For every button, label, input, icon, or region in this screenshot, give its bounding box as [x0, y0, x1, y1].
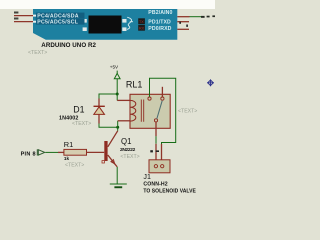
- relay pole contact: [154, 119, 157, 122]
- svg-text:<TEXT>: <TEXT>: [65, 162, 84, 168]
- svg-text:<TEXT>: <TEXT>: [178, 109, 197, 115]
- transistor Q1 base bar: [104, 141, 107, 161]
- wire B down to collector: [117, 127, 119, 131]
- svg-text:1k: 1k: [64, 156, 70, 161]
- diode D1 cathode bar: [94, 105, 105, 107]
- origin marker: [207, 79, 214, 86]
- arduino U1 board body: [33, 9, 177, 40]
- svg-text:<TEXT>: <TEXT>: [28, 50, 47, 56]
- junction A: [116, 93, 119, 96]
- relay contact NO: [161, 97, 164, 100]
- svg-text:ARDUINO UNO R2: ARDUINO UNO R2: [41, 42, 96, 49]
- pin mark SDA: [33, 15, 36, 17]
- white top band (outside sheet): [0, 0, 215, 9]
- svg-text:PC5/ADC5/SCL: PC5/ADC5/SCL: [37, 20, 79, 26]
- svg-text:PD0/RXD: PD0/RXD: [148, 26, 171, 32]
- relay RL1 body: [130, 94, 170, 128]
- net label marks: [201, 16, 205, 18]
- svg-text:PIN 8: PIN 8: [21, 152, 36, 158]
- wire pin28 SCL: [14, 21, 33, 23]
- connector J1 body: [149, 160, 170, 173]
- svg-text:J1: J1: [143, 173, 151, 181]
- svg-text:TX: TX: [139, 20, 144, 24]
- relay blade: [157, 101, 162, 119]
- pin number 0: [186, 25, 188, 27]
- pin stub J1 pin2: [161, 144, 163, 165]
- svg-text:PD1/TXD: PD1/TXD: [148, 19, 171, 25]
- svg-text:2N2222: 2N2222: [120, 147, 136, 153]
- arduino IC chip: [89, 16, 122, 34]
- diode D1 triangle: [94, 107, 105, 115]
- arduino silk squiggle: [127, 17, 132, 29]
- emitter arrow: [111, 160, 115, 164]
- diode D1 pin bottom: [98, 114, 100, 123]
- pad 1: [154, 165, 157, 168]
- transistor Q1 collector: [108, 131, 118, 147]
- pin mark SCL: [33, 21, 36, 23]
- svg-text:PB2/AIN0: PB2/AIN0: [148, 10, 172, 16]
- power symbol +5V: [116, 71, 118, 74]
- origin mark Q1: [102, 161, 104, 163]
- RX indicator: [138, 25, 145, 31]
- pin stub J1 pin1: [155, 144, 157, 165]
- label A4: [14, 12, 18, 14]
- svg-text:TO SOLENOID VALVE: TO SOLENOID VALVE: [143, 189, 196, 195]
- arduino chip pads: [83, 19, 127, 31]
- wire pin27 SDA: [14, 15, 33, 17]
- pin stub RXD: [177, 28, 189, 30]
- svg-text:Q1: Q1: [121, 137, 131, 146]
- wire emitter to ground: [116, 167, 118, 184]
- transistor Q1 emitter: [108, 155, 117, 167]
- svg-text:D1: D1: [73, 104, 84, 114]
- wire pole to J1 pin1: [155, 136, 157, 144]
- terminal PIN8: [36, 149, 38, 155]
- TX indicator: [138, 18, 145, 24]
- pin stub TXD: [177, 21, 189, 23]
- sheet background: [0, 0, 215, 215]
- relay coil arcs: [130, 100, 136, 121]
- wire A down to coil pin1: [116, 94, 118, 100]
- pin stub R1 left: [58, 151, 64, 153]
- relay contact NC: [148, 97, 151, 100]
- svg-text:RL1: RL1: [126, 79, 143, 89]
- wire D1 anode to B: [99, 124, 118, 128]
- svg-text:RX: RX: [139, 27, 145, 31]
- wire PIN8 to R1: [45, 151, 58, 153]
- pin stub coil 2: [118, 120, 130, 122]
- wire B up to coil pin2: [117, 121, 119, 127]
- wire NC contact to J1 pin2: [150, 78, 176, 144]
- pin stub NO dangling: [161, 87, 163, 97]
- svg-text:R1: R1: [64, 140, 73, 149]
- svg-text:CONN-H2: CONN-H2: [143, 182, 167, 188]
- svg-text:+5V: +5V: [110, 65, 119, 70]
- label A5: [14, 18, 18, 20]
- resistor R1: [64, 149, 87, 155]
- pin number 1: [179, 22, 181, 24]
- pin stub pole down: [155, 122, 157, 136]
- pin stub AREF right: [177, 16, 189, 18]
- pad 2: [161, 165, 164, 168]
- wire A to D1 cathode: [99, 94, 117, 99]
- svg-text:<TEXT>: <TEXT>: [72, 121, 91, 127]
- wire +5V down: [116, 79, 118, 94]
- junction B: [116, 126, 119, 129]
- ground: [110, 183, 127, 185]
- pin label box PC5/ADC5/SCL: [36, 19, 85, 25]
- pin label box PC4/ADC4/SDA: [36, 13, 85, 19]
- relay core bars: [141, 100, 143, 122]
- wire D13 net: [190, 16, 204, 18]
- pin number marks: [150, 150, 153, 152]
- diode D1 pin top: [98, 99, 100, 107]
- pin stub coil 1: [117, 99, 130, 101]
- svg-text:<TEXT>: <TEXT>: [120, 154, 139, 160]
- svg-text:PC4/ADC4/SDA: PC4/ADC4/SDA: [37, 14, 79, 20]
- pin stub R1 right to base: [87, 151, 105, 153]
